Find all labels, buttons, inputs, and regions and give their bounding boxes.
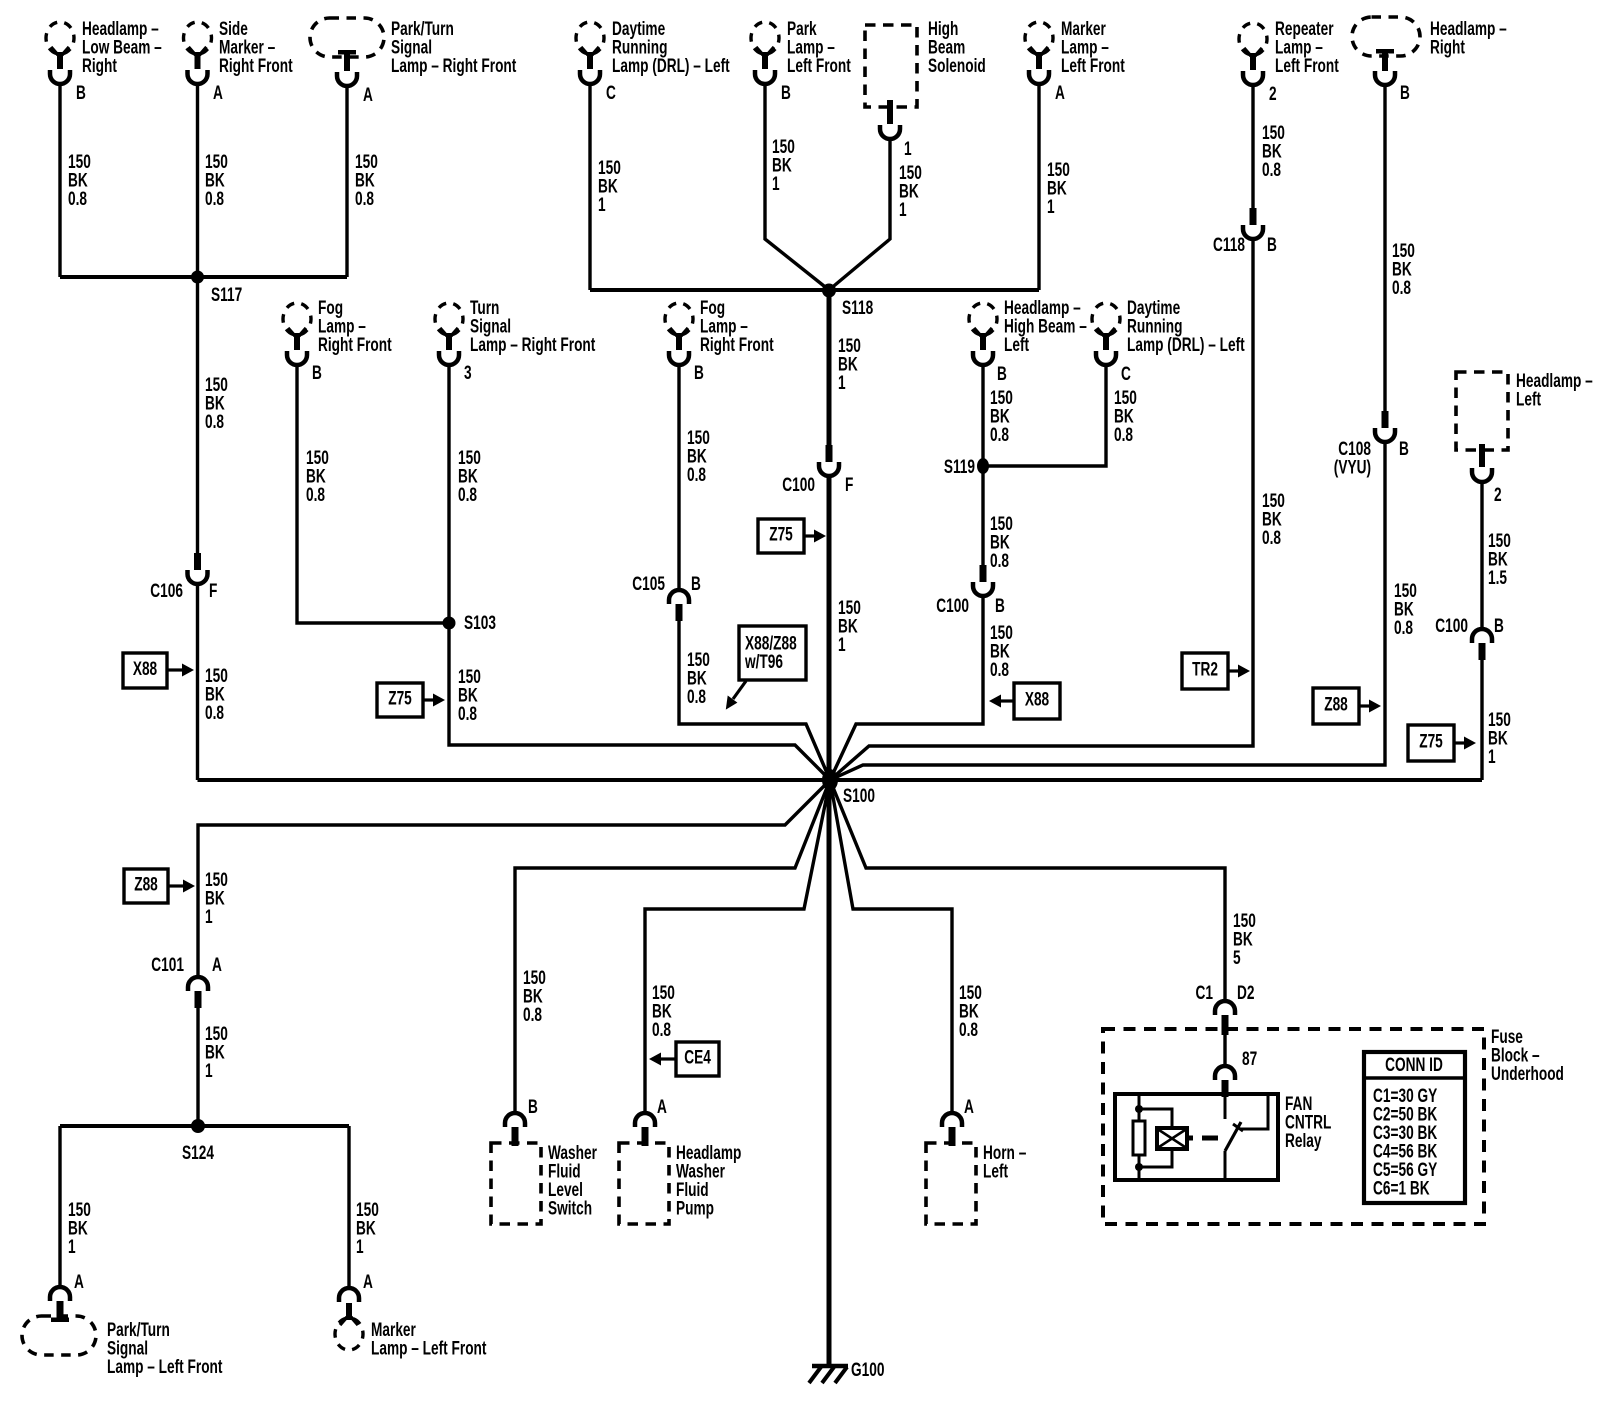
label wire 150 BK 1 main above C100 (838, 335, 861, 394)
label wire 150 BK 0.8 horn (959, 982, 982, 1041)
svg-text:B: B (1399, 438, 1409, 460)
label Fog Lamp - Right Front (318, 297, 392, 356)
pin 2 of repeater lamp (1269, 83, 1277, 105)
lamp Fog Lamp - Right Front (283, 303, 311, 365)
svg-text:0.8: 0.8 (68, 188, 87, 210)
svg-text:Lamp – Left Front: Lamp – Left Front (107, 1356, 223, 1378)
label wire 150 BK 0.8 headlamp right (1392, 240, 1415, 299)
label Turn Signal Lamp - Right Front (470, 297, 596, 356)
svg-text:0.8: 0.8 (990, 424, 1009, 446)
label Headlamp - High Beam - Left (1004, 297, 1087, 356)
label C100 B right (1435, 615, 1504, 637)
wire headlamp right to C108 (1383, 84, 1386, 412)
label wire 150 BK 0.8 below C100 B (990, 622, 1013, 681)
component Fuse Block - Underhood box (1103, 1029, 1484, 1224)
label wire 150 BK 1 below C101 (205, 1023, 228, 1082)
component Horn - Left (926, 1143, 976, 1224)
label High Beam Solenoid (928, 18, 986, 77)
component High Beam Solenoid (865, 25, 917, 139)
wire C100 F to S100 (827, 476, 832, 780)
wire C1 to relay pin 87 (1223, 1035, 1226, 1067)
label wire 150 BK 1 high beam solenoid (899, 162, 922, 221)
label C118 B (1213, 234, 1277, 256)
connector C106 F (188, 553, 208, 584)
wire fog lamp 2 to C105 (677, 364, 680, 590)
flag X88 pointing left to wire (989, 683, 1060, 719)
connector C101 A (188, 977, 208, 1008)
svg-text:Z88: Z88 (134, 873, 158, 895)
svg-text:Right: Right (82, 55, 117, 77)
svg-text:0.8: 0.8 (990, 550, 1009, 572)
pin A of park/turn right front (363, 84, 373, 106)
wire relay coil branch top (1139, 1109, 1172, 1128)
label Daytime Running Lamp (DRL) - Left second (1127, 297, 1245, 356)
label Headlamp - Right (1430, 18, 1507, 58)
svg-text:(VYU): (VYU) (1334, 456, 1371, 478)
splice S124 (191, 1119, 205, 1133)
svg-text:1: 1 (356, 1236, 364, 1258)
svg-text:C6=1 BK: C6=1 BK (1373, 1177, 1430, 1199)
label wire 150 BK 0.8 below C118 (1262, 490, 1285, 549)
svg-text:A: A (1055, 82, 1065, 104)
bus S118 horizontal (590, 288, 1039, 292)
pin C of DRL left (606, 82, 616, 104)
label wire 150 BK 0.8 repeater (1262, 122, 1285, 181)
connector pin A horn (942, 1113, 962, 1146)
label wire 150 BK 0.8 DRL second (1114, 387, 1137, 446)
label Daytime Running Lamp (DRL) - Left (612, 18, 730, 77)
svg-text:C1: C1 (1196, 982, 1213, 1004)
svg-text:Left: Left (983, 1160, 1008, 1182)
label wire 150 BK 0.8 high beam left (990, 387, 1013, 446)
label C105 B (632, 573, 701, 595)
lamp Turn Signal Lamp - Right Front (435, 303, 463, 365)
connector pin A washer pump (635, 1113, 655, 1146)
label wire 150 BK 0.8 washer pump (652, 982, 675, 1041)
pin B of park lamp left front (781, 82, 791, 104)
svg-text:A: A (212, 954, 222, 976)
svg-text:0.8: 0.8 (652, 1019, 671, 1041)
label wire 150 BK 0.8 below C106 (205, 665, 228, 724)
svg-text:2: 2 (1494, 484, 1502, 506)
svg-text:Left Front: Left Front (1061, 55, 1125, 77)
svg-text:S119: S119 (944, 456, 975, 478)
svg-text:0.8: 0.8 (990, 659, 1009, 681)
svg-text:w/T96: w/T96 (744, 651, 783, 673)
label wire 150 BK 0.8 washer switch (523, 967, 546, 1026)
label Marker Lamp - Left Front top (1061, 18, 1125, 77)
wire C100 B to S100 (830, 596, 983, 780)
label Headlamp Washer Fluid Pump (676, 1142, 741, 1219)
bus S117 horizontal (60, 275, 347, 279)
wire relay coil branch bottom (1139, 1148, 1172, 1167)
wire S100 to washer fluid level switch (515, 780, 830, 1113)
pin B of fog lamp right front (312, 362, 322, 384)
wire fog lamp right front to S103 (297, 364, 449, 623)
flag CE4 pointing left to pump wire (649, 1042, 719, 1076)
label wire 150 BK 0.8 below S119 (990, 513, 1013, 572)
wire S117 to C106 (196, 277, 199, 554)
svg-text:0.8: 0.8 (959, 1019, 978, 1041)
svg-text:C118: C118 (1213, 234, 1245, 256)
flag TR2 pointing to C118 wire (1182, 653, 1250, 689)
wire high beam solenoid to S118 (829, 138, 890, 290)
wire daytime running lamp left to S118 (588, 83, 591, 290)
lamp Marker Lamp - Left Front top (1025, 22, 1053, 84)
connector C105 B (669, 590, 689, 621)
wire S100 to headlamp washer fluid pump (645, 780, 830, 1113)
lamp Daytime Running Lamp (DRL) - Left (576, 22, 604, 84)
flag Z88 pointing to C101 wire (124, 869, 195, 903)
label FAN CNTRL Relay (1285, 1093, 1331, 1152)
svg-text:B: B (528, 1096, 538, 1118)
label wire 150 BK 0.8 turn signal lower (458, 666, 481, 725)
lamp Headlamp - High Beam - Left (969, 303, 997, 365)
svg-text:0.8: 0.8 (205, 188, 224, 210)
svg-text:0.8: 0.8 (458, 703, 477, 725)
wire C118 to S100 (830, 239, 1253, 780)
label G100 (851, 1359, 884, 1381)
svg-text:B: B (1267, 234, 1277, 256)
svg-text:1: 1 (205, 1060, 213, 1082)
svg-text:1: 1 (904, 138, 912, 160)
svg-text:F: F (845, 474, 853, 496)
svg-text:G100: G100 (851, 1359, 884, 1381)
relay switch contact to top (1241, 1094, 1268, 1129)
junction dot relay bottom (1135, 1163, 1143, 1171)
svg-text:B: B (997, 363, 1007, 385)
label Park/Turn Signal Lamp - Left Front (107, 1319, 223, 1378)
flag Z88 pointing to C108 wire (1313, 688, 1381, 724)
label wire 150 BK 0.8 below S117 (205, 374, 228, 433)
svg-text:C100: C100 (782, 474, 815, 496)
splice S119 (977, 458, 989, 474)
svg-text:Lamp – Right Front: Lamp – Right Front (470, 334, 596, 356)
flag Z75 pointing to main wire (758, 519, 826, 553)
label wire 150 BK 1 above C101 (205, 869, 228, 928)
svg-text:C101: C101 (151, 954, 184, 976)
flag X88/Z88 w/T96 (726, 626, 806, 710)
pin C of DRL second (1121, 363, 1131, 385)
label C101 A (151, 954, 222, 976)
svg-text:S118: S118 (842, 297, 873, 319)
splice S118 (822, 284, 836, 298)
label Washer Fluid Level Switch (548, 1142, 597, 1219)
svg-text:1: 1 (838, 634, 846, 656)
svg-text:Z88: Z88 (1324, 693, 1348, 715)
splice S103 (443, 617, 456, 630)
wire relay resistor leg (1138, 1094, 1141, 1121)
svg-text:Left Front: Left Front (1275, 55, 1339, 77)
wire S100 to fuse block C1 (830, 780, 1225, 1002)
label C100 B left (936, 595, 1005, 617)
svg-text:CE4: CE4 (684, 1046, 711, 1068)
svg-text:Left Front: Left Front (787, 55, 851, 77)
svg-text:Lamp (DRL) – Left: Lamp (DRL) – Left (612, 55, 730, 77)
lamp Headlamp - Low Beam - Right (46, 22, 74, 84)
svg-text:0.8: 0.8 (205, 702, 224, 724)
label Headlamp - Left (1516, 370, 1593, 410)
bus S124 horizontal (60, 1124, 349, 1128)
label Park/Turn Signal Lamp - Right Front (391, 18, 517, 77)
label S118 (842, 297, 873, 319)
pin B of headlamp low beam right (76, 82, 86, 104)
svg-text:0.8: 0.8 (458, 484, 477, 506)
wire S118 to C100 F (827, 290, 832, 446)
relay switch blade (1225, 1122, 1243, 1151)
junction dot relay top (1135, 1105, 1143, 1113)
label wire 150 BK 1 DRL left (598, 157, 621, 216)
pin B of headlamp high beam left (997, 363, 1007, 385)
svg-text:0.8: 0.8 (523, 1004, 542, 1026)
connector pin B washer switch (505, 1113, 525, 1146)
svg-text:Underhood: Underhood (1491, 1063, 1564, 1085)
svg-text:Solenoid: Solenoid (928, 55, 986, 77)
wire relay resistor leg lower (1138, 1155, 1141, 1180)
label Repeater Lamp - Left Front (1275, 18, 1339, 77)
svg-text:B: B (312, 362, 322, 384)
svg-text:X88: X88 (133, 658, 157, 680)
lamp Headlamp - Right (1352, 17, 1420, 85)
pin 1 of high beam solenoid (904, 138, 912, 160)
wire C100 B right to S100 main horizontal (1480, 660, 1483, 780)
svg-text:S100: S100 (843, 785, 875, 807)
label wire 150 BK 5 fuse block (1233, 910, 1256, 969)
wire side marker right front to S117 (196, 83, 199, 277)
pin B of washer switch (528, 1096, 538, 1118)
lamp Park/Turn Signal Lamp - Left Front (22, 1316, 96, 1355)
pin B of fog lamp second (694, 362, 704, 384)
label Horn - Left (983, 1142, 1026, 1182)
svg-text:A: A (363, 1271, 373, 1293)
label S119 (944, 456, 975, 478)
label S100 (843, 785, 875, 807)
svg-text:Right Front: Right Front (318, 334, 392, 356)
connector C100 F (819, 445, 839, 476)
svg-text:Right Front: Right Front (219, 55, 293, 77)
label C106 F (150, 580, 217, 602)
wire main horizontal through S100 (198, 778, 1483, 782)
svg-text:0.8: 0.8 (355, 188, 374, 210)
label wire 150 BK 1 park lamp left front (772, 136, 795, 195)
svg-text:C105: C105 (632, 573, 665, 595)
svg-text:C100: C100 (936, 595, 969, 617)
svg-text:87: 87 (1242, 1048, 1257, 1070)
svg-text:1: 1 (205, 906, 213, 928)
svg-text:2: 2 (1269, 83, 1277, 105)
label Fog Lamp - Right Front second (700, 297, 774, 356)
svg-text:Pump: Pump (676, 1197, 714, 1219)
label wire 150 BK 1 below C100 F (838, 597, 861, 656)
label Side Marker - Right Front (219, 18, 293, 77)
label wire 150 BK 1 below C100 B right (1488, 709, 1511, 768)
connector pin A park/turn left front (50, 1287, 70, 1322)
svg-text:Left: Left (1516, 388, 1541, 410)
table CONN ID box (1364, 1052, 1465, 1203)
lamp Side Marker - Right Front (184, 22, 212, 84)
svg-text:S124: S124 (182, 1142, 215, 1164)
label wire 150 BK 0.8 headlamp low beam right (68, 151, 91, 210)
wire C101 to S124 (196, 1008, 199, 1126)
splice S100 (822, 769, 838, 791)
dashed actuator link in relay (1202, 1136, 1218, 1141)
resistor inside relay (1133, 1121, 1145, 1155)
wire repeater lamp to C118 (1251, 83, 1254, 209)
wire C105 to S100 (679, 621, 830, 780)
label wire 150 BK 0.8 side marker (205, 151, 228, 210)
label pin 87 (1242, 1048, 1257, 1070)
label wire 150 BK 1.5 headlamp left (1488, 530, 1511, 589)
component Washer Fluid Level Switch (491, 1143, 541, 1224)
svg-text:A: A (657, 1096, 667, 1118)
svg-text:5: 5 (1233, 947, 1241, 969)
pin A of marker lamp left front top (1055, 82, 1065, 104)
svg-text:A: A (964, 1096, 974, 1118)
wire S100 diag to C108 branch (830, 765, 863, 780)
lamp Marker Lamp - Left Front bottom (335, 1288, 363, 1350)
svg-text:C100: C100 (1435, 615, 1468, 637)
wire C108 to S100 (830, 442, 1385, 780)
pin A of side marker (213, 82, 223, 104)
splice S117 (191, 271, 204, 284)
label wire 150 BK 0.8 fog lamp right front (306, 447, 329, 506)
connector C1 D2 of fuse block (1215, 1001, 1235, 1035)
label wire 150 BK 1 marker lamp left front bottom (356, 1199, 379, 1258)
lamp Fog Lamp - Right Front second (665, 303, 693, 365)
svg-text:B: B (691, 573, 701, 595)
label C108 (VYU) B (1334, 438, 1409, 478)
wire headlamp left to C100 B right (1480, 484, 1483, 630)
svg-text:Right: Right (1430, 36, 1465, 58)
svg-text:Z75: Z75 (1419, 730, 1443, 752)
connector C108 (VYU) B (1375, 411, 1395, 442)
label connector id list (1373, 1085, 1437, 1199)
coil box with X inside relay (1157, 1128, 1193, 1149)
label Headlamp - Low Beam - Right (82, 18, 162, 77)
svg-text:Lamp – Left Front: Lamp – Left Front (371, 1337, 487, 1359)
svg-text:1: 1 (598, 194, 606, 216)
svg-text:Lamp (DRL) – Left: Lamp (DRL) – Left (1127, 334, 1245, 356)
wire turn signal lamp right front through S103 to S100 (449, 364, 830, 780)
svg-text:0.8: 0.8 (687, 686, 706, 708)
label wire 150 BK 0.8 below C108 (1394, 580, 1417, 639)
label wire 150 BK 0.8 fog second lower (687, 649, 710, 708)
flag Z75 pointing to headlamp left wire (1408, 725, 1476, 761)
label S117 (211, 284, 242, 306)
connector C118 B (1243, 208, 1263, 239)
svg-text:Relay: Relay (1285, 1130, 1322, 1152)
label C100 F (782, 474, 853, 496)
flag Z75 pointing to turn signal wire (377, 683, 445, 717)
label S124 (182, 1142, 215, 1164)
connector 87 of fan control relay (1215, 1066, 1235, 1097)
pin A of marker lamp left front bottom (363, 1271, 373, 1293)
svg-text:Z75: Z75 (388, 687, 412, 709)
label S103 (464, 612, 496, 634)
svg-text:Lamp – Right Front: Lamp – Right Front (391, 55, 517, 77)
svg-text:B: B (1494, 615, 1504, 637)
lamp Daytime Running Lamp (DRL) - Left second (1092, 303, 1120, 365)
svg-text:0.8: 0.8 (1262, 527, 1281, 549)
wire S100 diag to C105 branch (806, 724, 830, 780)
pin 2 of headlamp left (1494, 484, 1502, 506)
wire headlamp low beam right to S117 (58, 83, 61, 277)
svg-text:0.8: 0.8 (205, 411, 224, 433)
svg-text:3: 3 (464, 362, 472, 384)
label wire 150 BK 0.8 park/turn right front (355, 151, 378, 210)
relay switch common leg (1224, 1097, 1227, 1119)
wire S124 to marker lamp left front (347, 1126, 350, 1288)
svg-text:0.8: 0.8 (687, 464, 706, 486)
svg-text:A: A (213, 82, 223, 104)
wire S100 to horn left (830, 780, 952, 1113)
component FAN CNTRL Relay box (1115, 1094, 1278, 1180)
svg-text:B: B (694, 362, 704, 384)
wire S100 diag to C118 branch (830, 746, 869, 780)
svg-text:Right Front: Right Front (700, 334, 774, 356)
connector C100 B left (973, 565, 993, 596)
svg-text:A: A (363, 84, 373, 106)
ground G100 symbol (809, 1366, 848, 1383)
lamp Repeater Lamp - Left Front (1239, 23, 1267, 85)
svg-text:1: 1 (1488, 746, 1496, 768)
wire C106 branch from S117 (196, 584, 199, 780)
svg-text:1: 1 (838, 372, 846, 394)
wire park/turn signal right front to S117 (345, 85, 348, 277)
svg-text:C106: C106 (150, 580, 183, 602)
label C1 D2 (1196, 982, 1255, 1004)
svg-text:1: 1 (1047, 196, 1055, 218)
wire S100 to ground G100 (827, 780, 832, 1366)
wire S100 diag to C100B branch (830, 724, 856, 780)
wire S124 to park/turn left front (58, 1126, 61, 1288)
svg-text:Z75: Z75 (769, 523, 793, 545)
svg-text:A: A (74, 1271, 84, 1293)
svg-text:1.5: 1.5 (1488, 567, 1507, 589)
pin A of horn (964, 1096, 974, 1118)
label wire 150 BK 1 park/turn left front (68, 1199, 91, 1258)
relay switch lower leg (1224, 1151, 1227, 1180)
wire S100 diag to turn signal branch (795, 745, 830, 780)
label wire 150 BK 1 marker lamp left front (1047, 159, 1070, 218)
pin B of headlamp right (1400, 82, 1410, 104)
svg-text:B: B (781, 82, 791, 104)
svg-text:1: 1 (899, 199, 907, 221)
component Headlamp Washer Fluid Pump (619, 1143, 669, 1224)
svg-text:S103: S103 (464, 612, 496, 634)
wire S100 to C101 branch (198, 780, 830, 977)
label wire 150 BK 0.8 turn signal upper (458, 447, 481, 506)
svg-text:S117: S117 (211, 284, 242, 306)
label CONN ID header (1385, 1054, 1443, 1076)
wire park lamp left front to S118 (765, 83, 829, 290)
svg-text:X88: X88 (1025, 688, 1049, 710)
lamp Park/Turn Signal Lamp - Right Front (310, 18, 384, 86)
wire S119 to C100 B (981, 466, 984, 566)
wire DRL second to S119 (983, 364, 1106, 466)
flag X88 pointing to C106 wire (123, 653, 194, 688)
label Marker Lamp - Left Front bottom (371, 1319, 487, 1359)
svg-text:C: C (606, 82, 616, 104)
svg-text:0.8: 0.8 (1114, 424, 1133, 446)
svg-text:CONN ID: CONN ID (1385, 1054, 1443, 1076)
svg-text:Left: Left (1004, 334, 1029, 356)
pin 3 of turn signal right front (464, 362, 472, 384)
svg-text:0.8: 0.8 (1262, 159, 1281, 181)
component Headlamp - Left (1456, 372, 1508, 482)
svg-text:B: B (1400, 82, 1410, 104)
svg-text:C: C (1121, 363, 1131, 385)
